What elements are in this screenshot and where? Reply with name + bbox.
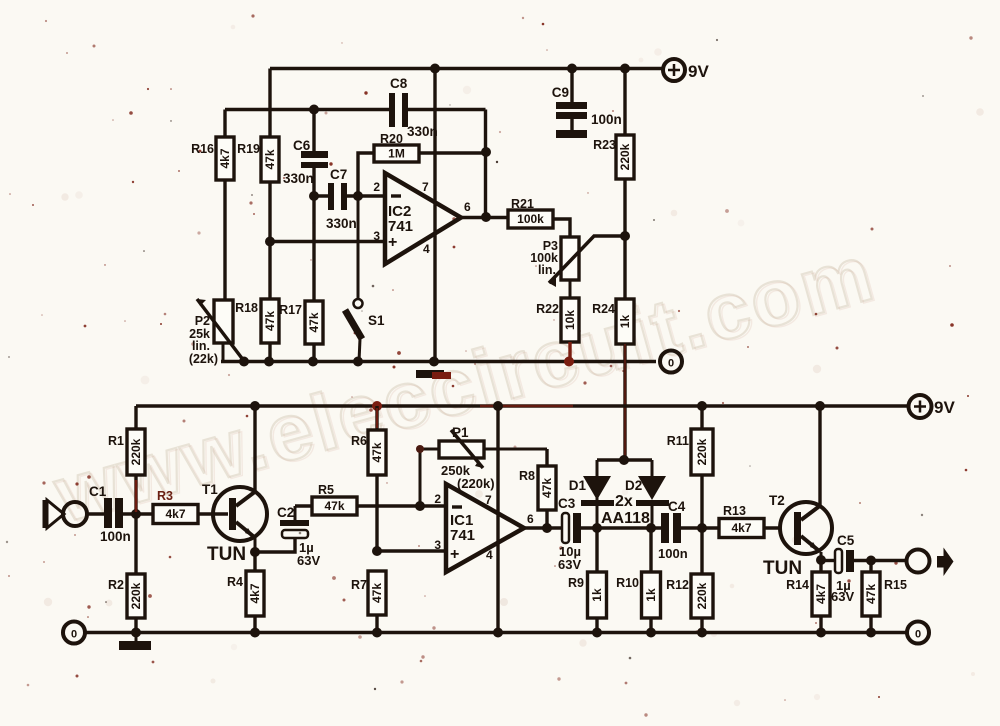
svg-text:R20: R20 [380, 132, 403, 146]
svg-text:2: 2 [434, 492, 441, 506]
svg-text:6: 6 [464, 200, 471, 214]
node [430, 64, 440, 74]
wire R5 to IC1 pin2 [357, 504, 446, 507]
resistor R15 [862, 572, 907, 616]
svg-text:C1: C1 [89, 484, 107, 499]
svg-text:C6: C6 [293, 138, 311, 153]
svg-text:47k: 47k [263, 311, 277, 331]
capacitor C9 [552, 69, 622, 139]
resistor R18 [235, 299, 279, 343]
wire emitter to C2 [255, 538, 295, 552]
node [866, 628, 876, 638]
svg-text:7: 7 [422, 180, 429, 194]
node [815, 401, 825, 411]
wire IC1 output [524, 526, 561, 529]
node [481, 212, 491, 222]
node (red) [372, 401, 382, 411]
node (red) [564, 357, 574, 367]
svg-text:C2: C2 [277, 505, 294, 520]
node [372, 628, 382, 638]
wire IC2 supply line [433, 69, 436, 362]
input terminal [63, 502, 87, 526]
node [620, 231, 630, 241]
svg-text:4k7: 4k7 [248, 583, 262, 603]
svg-text:100n: 100n [591, 112, 622, 127]
node [567, 64, 577, 74]
node [372, 546, 382, 556]
svg-text:R5: R5 [318, 483, 334, 497]
capacitor C7 [314, 167, 385, 231]
wire [268, 242, 271, 362]
svg-text:4k7: 4k7 [218, 148, 232, 168]
svg-text:R17: R17 [279, 303, 302, 317]
wire [268, 69, 271, 242]
svg-text:+: + [450, 546, 459, 563]
node [131, 509, 141, 519]
resistor R16 [191, 137, 234, 180]
svg-text:R11: R11 [667, 434, 689, 448]
svg-text:C4: C4 [668, 499, 686, 514]
ground symbol (input) [119, 633, 151, 651]
svg-text:R3: R3 [157, 489, 173, 503]
svg-text:R10: R10 [616, 576, 639, 590]
capacitor C1 [89, 484, 131, 544]
wire T1 collector [253, 406, 256, 492]
wire IC1 supply line [496, 406, 499, 633]
resistor R4 [227, 571, 264, 616]
svg-text:220k: 220k [129, 582, 143, 609]
svg-text:+: + [388, 234, 397, 251]
wire [312, 196, 315, 362]
wire IC2 output [461, 216, 508, 219]
svg-text:7: 7 [485, 493, 492, 507]
svg-text:D1: D1 [569, 478, 587, 493]
resistor R9 [568, 572, 606, 618]
capacitor C2 [277, 505, 320, 568]
svg-text:100n: 100n [658, 546, 688, 561]
svg-text:lin.: lin. [192, 339, 210, 353]
resistor R8 [519, 466, 556, 510]
node [619, 455, 629, 465]
svg-text:220k: 220k [129, 438, 143, 465]
node [481, 147, 491, 157]
svg-text:0: 0 [915, 629, 921, 641]
node [250, 547, 260, 557]
svg-text:220k: 220k [695, 582, 709, 609]
capacitor C8 [389, 76, 438, 139]
node [415, 501, 425, 511]
wire [223, 110, 226, 301]
svg-text:4k7: 4k7 [731, 521, 751, 535]
wire IC2 pin3 [270, 240, 385, 243]
svg-text:6: 6 [527, 512, 534, 526]
node [646, 628, 656, 638]
svg-text:47k: 47k [307, 312, 321, 332]
transistor T1 [202, 482, 267, 565]
resistor R20 [374, 132, 419, 162]
svg-text:9V: 9V [688, 62, 709, 81]
resistor R5 [312, 483, 357, 515]
wire [134, 514, 137, 633]
wire [375, 615, 378, 633]
node [646, 523, 656, 533]
svg-text:10k: 10k [563, 310, 577, 330]
0V terminal (top) [660, 351, 682, 373]
svg-text:R16: R16 [191, 142, 214, 156]
svg-text:47k: 47k [370, 442, 384, 462]
svg-text:P1: P1 [452, 425, 469, 440]
svg-text:330n: 330n [407, 124, 438, 139]
svg-text:1k: 1k [590, 588, 604, 602]
node [620, 64, 630, 74]
svg-text:R23: R23 [593, 138, 616, 152]
wire top 0V rail [221, 360, 656, 363]
capacitor C3 [558, 496, 581, 572]
svg-text:S1: S1 [368, 313, 385, 328]
node [542, 523, 552, 533]
node [353, 191, 363, 201]
resistor R22 [536, 298, 579, 342]
svg-text:D2: D2 [625, 478, 642, 493]
potentiometer P1 [420, 425, 547, 506]
node [816, 555, 826, 565]
resistor R19 [237, 137, 279, 182]
svg-text:R1: R1 [108, 434, 124, 448]
svg-text:TUN: TUN [763, 558, 802, 579]
resistor R17 [279, 301, 323, 344]
node [239, 357, 249, 367]
wire [649, 528, 652, 633]
svg-text:R6: R6 [351, 434, 367, 448]
resistor R7 [351, 571, 386, 615]
svg-text:R19: R19 [237, 142, 260, 156]
input connector arrow [44, 500, 64, 528]
svg-text:741: 741 [388, 218, 413, 235]
node [250, 628, 260, 638]
ground symbol under IC2 [416, 370, 451, 379]
capacitor C6 [283, 110, 328, 197]
node [493, 401, 503, 411]
node [493, 628, 503, 638]
node [592, 523, 602, 533]
svg-text:63V: 63V [558, 557, 581, 572]
wire C3 to diodes [581, 526, 661, 529]
capacitor C5 [831, 533, 855, 604]
svg-text:0: 0 [71, 629, 77, 641]
svg-text:47k: 47k [370, 583, 384, 603]
wire T2 collector [818, 406, 821, 506]
node [866, 556, 876, 566]
node [250, 401, 260, 411]
svg-text:C3: C3 [558, 496, 576, 511]
svg-text:100n: 100n [100, 529, 131, 544]
node [429, 357, 439, 367]
svg-text:0: 0 [668, 358, 674, 370]
svg-text:R12: R12 [666, 578, 689, 592]
resistor R6 [351, 430, 386, 475]
svg-text:330n: 330n [326, 216, 357, 231]
0V terminal (bottom-right) [907, 622, 929, 644]
wire R24 to diodes (partly red) [623, 344, 626, 460]
node [264, 357, 274, 367]
wire [623, 69, 626, 237]
wire C4 to R13 [681, 526, 719, 529]
resistor R13 [719, 504, 764, 538]
svg-text:4k7: 4k7 [814, 584, 828, 604]
op-amp IC1 [446, 484, 524, 572]
svg-text:3: 3 [434, 538, 441, 552]
wire bottom 0V rail [86, 631, 907, 634]
resistor R23 [593, 135, 634, 179]
svg-text:4: 4 [486, 548, 493, 562]
wire top +9V rail [270, 67, 663, 70]
wire [134, 475, 137, 514]
svg-text:R8: R8 [519, 469, 535, 483]
node [308, 357, 318, 367]
node [131, 628, 141, 638]
svg-text:220k: 220k [695, 438, 709, 465]
svg-text:R2: R2 [108, 578, 124, 592]
+9V terminal (bottom) [909, 395, 956, 418]
node [309, 191, 319, 201]
wire [123, 512, 153, 515]
potentiometer P2 [189, 299, 244, 366]
svg-text:(220k): (220k) [457, 476, 495, 491]
svg-text:P2: P2 [195, 314, 210, 328]
diode D1 [569, 460, 614, 528]
wire bottom +9V rail [136, 406, 908, 429]
potentiometer P3 [530, 236, 625, 298]
wire emitter to C5 [821, 559, 835, 562]
resistor R24 [592, 299, 634, 344]
svg-text:741: 741 [450, 527, 475, 544]
wire [375, 406, 378, 430]
wire [623, 236, 626, 299]
resistor R21 [508, 197, 553, 228]
resistor R2 [108, 574, 145, 618]
svg-text:C8: C8 [390, 76, 408, 91]
wire [545, 449, 548, 528]
svg-text:AA118: AA118 [601, 510, 650, 527]
svg-text:2: 2 [373, 180, 380, 194]
svg-text:1k: 1k [618, 315, 632, 329]
node [265, 237, 275, 247]
svg-text:C7: C7 [330, 167, 347, 182]
wire R22 bottom (red tinge) [568, 342, 571, 362]
resistor R1 [108, 429, 145, 475]
diode D2 [625, 460, 669, 528]
wire [198, 512, 228, 515]
svg-text:1M: 1M [388, 147, 405, 161]
svg-text:R13: R13 [723, 504, 746, 518]
wire [87, 512, 104, 515]
svg-text:2x: 2x [615, 493, 633, 510]
+9V terminal (top) [663, 59, 709, 81]
wire [764, 526, 782, 529]
wire [819, 560, 822, 633]
transistor T2 [763, 493, 832, 579]
wire C2 to R5 [295, 504, 312, 507]
svg-text:R22: R22 [536, 302, 559, 316]
wire [869, 561, 872, 633]
svg-text:220k: 220k [618, 143, 632, 170]
wire [700, 406, 703, 528]
wire upper feedback rail [225, 110, 486, 218]
svg-text:47k: 47k [540, 478, 554, 498]
node [592, 628, 602, 638]
svg-text:R7: R7 [351, 578, 367, 592]
svg-text:T1: T1 [202, 482, 218, 497]
svg-text:4k7: 4k7 [165, 507, 185, 521]
output arrow [937, 548, 954, 577]
svg-text:R4: R4 [227, 575, 243, 589]
node [697, 523, 707, 533]
node [816, 628, 826, 638]
diode bracket wire [597, 458, 652, 461]
svg-text:R14: R14 [786, 578, 809, 592]
resistor R14 [786, 572, 830, 616]
svg-text:R18: R18 [235, 301, 258, 315]
wire [700, 528, 703, 633]
svg-text:C5: C5 [837, 533, 855, 548]
svg-text:R21: R21 [511, 197, 534, 211]
svg-text:63V: 63V [297, 553, 320, 568]
svg-text:47k: 47k [324, 499, 344, 513]
wire [553, 219, 570, 237]
wire [419, 151, 486, 154]
op-amp IC2 [385, 173, 461, 264]
svg-text:1k: 1k [644, 588, 658, 602]
svg-text:330n: 330n [283, 171, 314, 186]
svg-text:9V: 9V [934, 398, 955, 417]
resistor R12 [666, 574, 713, 618]
svg-text:R9: R9 [568, 576, 584, 590]
svg-text:R24: R24 [592, 302, 615, 316]
svg-text:(22k): (22k) [189, 352, 218, 366]
node [697, 401, 707, 411]
node (P1 corner, red) [416, 445, 424, 453]
watermark [44, 227, 883, 539]
node [697, 628, 707, 638]
capacitor C4 [658, 499, 688, 561]
0V terminal (bottom-left) [63, 622, 85, 644]
svg-text:100k: 100k [517, 212, 544, 226]
resistor R3 [153, 489, 198, 524]
node [353, 357, 363, 367]
output terminal [907, 550, 930, 573]
wire C5 to output [854, 559, 906, 562]
svg-text:47k: 47k [263, 149, 277, 169]
wire [595, 528, 598, 633]
wire pin3 [377, 549, 446, 552]
svg-text:4: 4 [423, 242, 430, 256]
svg-text:63V: 63V [831, 589, 854, 604]
svg-text:T2: T2 [769, 493, 785, 508]
wire [375, 475, 378, 551]
svg-text:C9: C9 [552, 85, 569, 100]
svg-text:47k: 47k [864, 584, 878, 604]
svg-text:R15: R15 [884, 578, 907, 592]
node [309, 105, 319, 115]
svg-text:TUN: TUN [207, 544, 246, 565]
resistor R11 [667, 429, 713, 475]
svg-text:lin.: lin. [538, 263, 556, 277]
switch S1 [345, 196, 385, 362]
wire [358, 153, 374, 196]
wire [253, 552, 256, 633]
resistor R10 [616, 572, 660, 618]
